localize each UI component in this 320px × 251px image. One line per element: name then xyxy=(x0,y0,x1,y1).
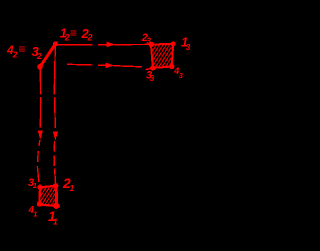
wire: horizontal projection line from A to corner 2₃ xyxy=(56,43,152,46)
svg-text:1: 1 xyxy=(70,183,75,193)
arrowhead on vertical line A to 2₁ xyxy=(53,132,58,141)
corner dot 2₃ xyxy=(149,42,154,47)
svg-text:2: 2 xyxy=(12,50,18,60)
label 1₁ xyxy=(48,208,58,227)
corner dot 3₃ xyxy=(150,65,155,70)
label 4₂≡3₂ xyxy=(6,42,42,61)
label 4₁ xyxy=(28,205,38,219)
arrowhead on projection line A to 2₃ xyxy=(107,42,116,48)
wire: vertical projection line from A down to corner 2₁ xyxy=(54,46,55,183)
svg-text:≡: ≡ xyxy=(19,42,26,56)
square in auxiliary view (top right), hatched xyxy=(151,44,173,68)
corner dot 3₁ xyxy=(37,185,42,190)
wire: horizontal projection line to corner 3₃ xyxy=(67,64,152,69)
svg-text:3: 3 xyxy=(186,43,191,52)
arrowhead on vertical line B to 3₁ xyxy=(38,131,43,140)
corner dot 1₁ xyxy=(53,203,59,209)
svg-text:1: 1 xyxy=(33,210,37,219)
svg-text:1: 1 xyxy=(53,217,58,227)
corner dot 4₁ xyxy=(37,201,42,206)
svg-text:2: 2 xyxy=(36,51,42,61)
point B : front view point 4₂≡3₂ xyxy=(37,64,43,70)
wire: vertical projection line from B down to corner 3₁ xyxy=(37,70,40,183)
svg-text:1: 1 xyxy=(33,181,37,190)
svg-text:≡: ≡ xyxy=(70,26,77,40)
svg-text:3: 3 xyxy=(179,71,184,80)
label 2₁ xyxy=(62,175,75,193)
corner dot 4₃ xyxy=(169,64,174,69)
label 1₂≡2₂ xyxy=(60,26,93,43)
edge segment A-B (edge view of square) xyxy=(40,44,56,67)
svg-text:3: 3 xyxy=(150,74,155,83)
svg-text:2: 2 xyxy=(87,32,93,42)
arrowhead on projection line to 3₃ xyxy=(106,63,115,68)
corner dot 2₁ xyxy=(53,183,58,188)
label 3₃ xyxy=(146,70,155,83)
square in top view (bottom left), hatched xyxy=(39,186,60,207)
label 3₁ xyxy=(28,177,37,190)
label 4₃ xyxy=(173,66,184,80)
svg-text:3: 3 xyxy=(147,37,152,46)
corner dot 1₃ xyxy=(171,41,176,46)
svg-text:2: 2 xyxy=(64,33,70,43)
label 2₃ xyxy=(141,32,152,46)
label 1₃ xyxy=(181,35,191,53)
point A : front view point 1₂≡2₂ xyxy=(53,41,58,46)
